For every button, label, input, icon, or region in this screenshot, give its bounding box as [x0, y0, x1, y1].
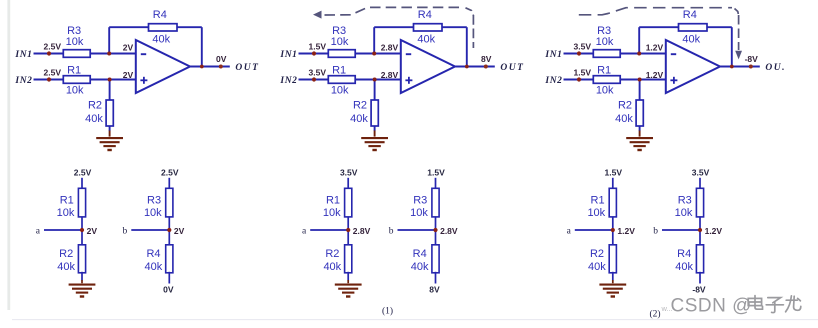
svg-text:10k: 10k [144, 207, 162, 219]
svg-text:40k: 40k [615, 113, 633, 125]
svg-text:1.5V: 1.5V [605, 167, 623, 177]
svg-text:2.8V: 2.8V [440, 226, 458, 236]
svg-text:2.8V: 2.8V [353, 226, 371, 236]
svg-text:1.5V: 1.5V [574, 67, 592, 77]
svg-text:8V: 8V [429, 285, 440, 295]
svg-text:2.5V: 2.5V [44, 67, 62, 77]
svg-text:R2: R2 [590, 248, 604, 260]
svg-text:2.5V: 2.5V [161, 167, 179, 177]
svg-text:R4: R4 [418, 9, 432, 21]
svg-text:10k: 10k [410, 207, 428, 219]
svg-text:1.2V: 1.2V [617, 226, 635, 236]
svg-text:10k: 10k [596, 85, 614, 97]
svg-text:40k: 40k [417, 34, 435, 46]
svg-text:2.5V: 2.5V [74, 167, 92, 177]
svg-text:40k: 40k [323, 261, 341, 273]
svg-text:10k: 10k [331, 85, 349, 97]
svg-text:8V: 8V [481, 54, 492, 64]
svg-text:R4: R4 [413, 248, 427, 260]
svg-text:40k: 40k [350, 113, 368, 125]
svg-text:10k: 10k [66, 85, 84, 97]
svg-text:1.5V: 1.5V [427, 167, 445, 177]
svg-text:b: b [653, 227, 658, 237]
svg-text:R3: R3 [678, 195, 692, 207]
svg-text:2.5V: 2.5V [44, 41, 62, 51]
svg-text:40k: 40k [588, 261, 606, 273]
svg-text:R4: R4 [146, 248, 160, 260]
svg-text:40k: 40k [85, 113, 103, 125]
svg-text:40k: 40k [411, 261, 429, 273]
svg-text:R2: R2 [88, 99, 102, 111]
svg-text:1.2V: 1.2V [646, 43, 664, 53]
svg-text:3.5V: 3.5V [309, 67, 327, 77]
svg-text:2V: 2V [123, 43, 134, 53]
svg-text:2V: 2V [174, 226, 185, 236]
svg-text:0V: 0V [163, 285, 174, 295]
svg-text:R1: R1 [332, 65, 346, 77]
svg-text:2.8V: 2.8V [381, 70, 399, 80]
svg-text:R1: R1 [60, 195, 74, 207]
svg-text:IN1: IN1 [279, 50, 297, 60]
svg-text:(1): (1) [382, 306, 393, 317]
svg-text:40k: 40k [57, 261, 75, 273]
svg-text:IN1: IN1 [544, 50, 562, 60]
svg-text:2V: 2V [87, 226, 98, 236]
svg-text:10k: 10k [596, 36, 614, 48]
svg-text:0V: 0V [216, 54, 227, 64]
svg-text:3.5V: 3.5V [574, 41, 592, 51]
svg-text:(2): (2) [649, 309, 660, 320]
svg-text:10k: 10k [587, 207, 605, 219]
svg-text:R1: R1 [67, 65, 81, 77]
svg-text:R4: R4 [677, 248, 691, 260]
svg-text:b: b [389, 227, 394, 237]
svg-text:R2: R2 [59, 248, 73, 260]
svg-text:b: b [123, 227, 128, 237]
svg-text:40k: 40k [675, 261, 693, 273]
svg-text:R4: R4 [683, 9, 697, 21]
svg-text:IN2: IN2 [14, 76, 32, 86]
svg-text:10k: 10k [323, 207, 341, 219]
svg-text:R1: R1 [591, 195, 605, 207]
svg-text:2V: 2V [123, 70, 134, 80]
svg-text:R2: R2 [353, 99, 367, 111]
svg-text:1.2V: 1.2V [646, 70, 664, 80]
svg-text:IN2: IN2 [544, 76, 562, 86]
svg-text:R1: R1 [326, 195, 340, 207]
svg-text:CSDN @: CSDN @ [671, 296, 752, 317]
svg-text:2.8V: 2.8V [381, 43, 399, 53]
svg-text:40k: 40k [682, 34, 700, 46]
svg-text:IN1: IN1 [14, 50, 32, 60]
svg-text:IN2: IN2 [279, 76, 297, 86]
svg-text:OUT: OUT [500, 63, 524, 73]
svg-text:R2: R2 [325, 248, 339, 260]
svg-text:R2: R2 [618, 99, 632, 111]
svg-text:-8V: -8V [692, 285, 706, 295]
svg-text:10k: 10k [57, 207, 75, 219]
svg-text:10k: 10k [66, 36, 84, 48]
svg-text:40k: 40k [145, 261, 163, 273]
svg-text:-8V: -8V [745, 54, 759, 64]
svg-text:R3: R3 [147, 195, 161, 207]
svg-text:40k: 40k [152, 34, 170, 46]
svg-text:3.5V: 3.5V [340, 167, 358, 177]
svg-text:OU.: OU. [765, 63, 786, 73]
svg-text:10k: 10k [675, 207, 693, 219]
svg-text:OUT: OUT [235, 63, 259, 73]
svg-text:1.5V: 1.5V [309, 41, 327, 51]
svg-text:R3: R3 [413, 195, 427, 207]
svg-text:R4: R4 [153, 9, 167, 21]
svg-text:3.5V: 3.5V [692, 167, 710, 177]
svg-text:10k: 10k [331, 36, 349, 48]
svg-text:R1: R1 [597, 65, 611, 77]
svg-text:1.2V: 1.2V [705, 226, 723, 236]
